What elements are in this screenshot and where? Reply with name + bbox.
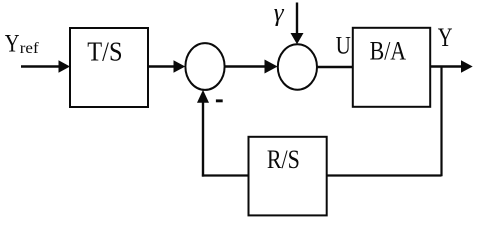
wire feedback horizontal to R/S right side — [327, 174, 442, 176]
wire T/S to summing junction S1 with arrowhead — [148, 60, 185, 73]
wire S2 to B/A — [317, 66, 353, 68]
svg-text:T/S: T/S — [87, 36, 122, 66]
svg-text:γ: γ — [274, 0, 285, 27]
summing junction S2 — [278, 44, 317, 89]
svg-text:ref: ref — [20, 40, 40, 57]
block R/S — [249, 137, 327, 216]
node Yref label — [5, 31, 40, 58]
block T/S — [70, 28, 148, 107]
wire feedback vertical up to S1 with arrowhead — [197, 90, 209, 177]
wire input Yref to T/S with arrowhead — [21, 60, 70, 73]
wire gamma input down into S2 with arrowhead — [291, 3, 304, 45]
svg-text:Y: Y — [438, 22, 453, 52]
wire feedback horizontal from R/S left side — [202, 174, 249, 176]
wire feedback tap down from output — [440, 67, 442, 177]
svg-text:R/S: R/S — [267, 145, 300, 174]
summing junction S1 — [185, 43, 224, 90]
wire B/A output Y with arrowhead — [430, 60, 473, 73]
svg-text:U: U — [336, 33, 351, 60]
minus sign at S1 — [216, 99, 223, 102]
svg-text:B/A: B/A — [370, 37, 407, 66]
block B/A — [353, 28, 430, 107]
svg-text:Y: Y — [5, 31, 20, 58]
wire S1 to summing junction S2 with arrowhead — [225, 60, 278, 74]
